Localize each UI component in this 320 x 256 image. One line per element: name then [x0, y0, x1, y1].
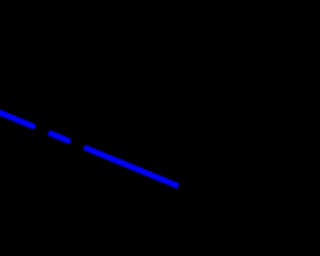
- wire segment 3 (long): [84, 147, 178, 186]
- wire segment 1 (left, clipped at canvas edge, rounded tip): [0, 111, 33, 126]
- wire segment 2 (short dash, rounded right tip): [49, 133, 69, 141]
